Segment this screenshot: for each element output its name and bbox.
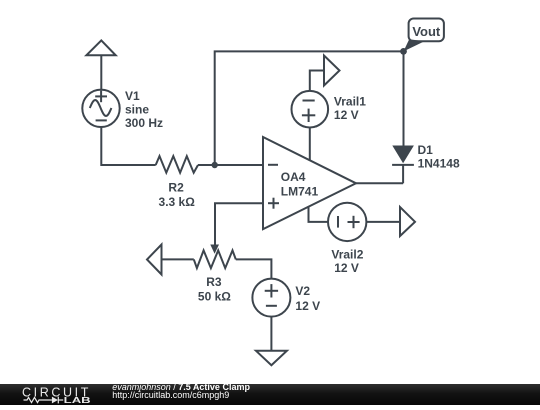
svg-text:D1: D1 [418, 143, 434, 157]
svg-text:Vout: Vout [412, 24, 441, 39]
svg-text:Vrail1: Vrail1 [334, 94, 366, 108]
svg-text:3.3 kΩ: 3.3 kΩ [159, 195, 196, 209]
svg-text:1N4148: 1N4148 [418, 156, 460, 170]
svg-text:R3: R3 [206, 275, 222, 289]
svg-text:12 V: 12 V [295, 299, 320, 313]
svg-text:LM741: LM741 [281, 185, 319, 199]
svg-text:Vrail2: Vrail2 [331, 248, 363, 262]
svg-text:300 Hz: 300 Hz [125, 116, 163, 130]
svg-text:OA4: OA4 [281, 170, 306, 184]
svg-text:sine: sine [125, 102, 149, 116]
svg-text:LAB: LAB [64, 396, 91, 405]
svg-text:http://circuitlab.com/c6mpgh9: http://circuitlab.com/c6mpgh9 [112, 390, 229, 400]
svg-text:50 kΩ: 50 kΩ [198, 289, 231, 303]
svg-text:R2: R2 [168, 180, 184, 194]
svg-text:V1: V1 [125, 89, 140, 103]
svg-text:12 V: 12 V [334, 108, 359, 122]
svg-text:V2: V2 [295, 284, 310, 298]
svg-text:12 V: 12 V [334, 261, 359, 275]
